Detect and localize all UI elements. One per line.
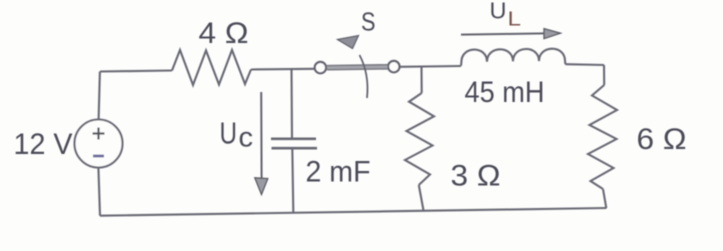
- svg-text:S: S: [361, 7, 376, 37]
- svg-text:3 Ω: 3 Ω: [451, 160, 501, 193]
- svg-text:2 mF: 2 mF: [306, 156, 371, 189]
- wire left vertical lower: [98, 168, 100, 216]
- switch S motion arc: [360, 55, 368, 98]
- wire bottom horizontal: [100, 208, 607, 216]
- wire capacitor branch upper: [290, 69, 293, 138]
- capacitor C1 top plate: [271, 138, 316, 141]
- svg-text:U: U: [220, 116, 238, 151]
- wire inductor to top-right corner: [565, 63, 604, 66]
- switch S left contact circle: [315, 62, 326, 73]
- arrow Uc line: [260, 92, 262, 179]
- arrow UL line: [461, 33, 545, 34]
- source V1 plus sign: [93, 128, 105, 140]
- wire 3ohm branch lower: [419, 185, 424, 211]
- wire right vertical upper: [603, 65, 605, 85]
- resistor R3 6ohm zigzag: [588, 85, 617, 189]
- resistor R1 4ohm zigzag: [172, 50, 251, 85]
- resistor R2 3ohm zigzag: [405, 93, 434, 185]
- wire top-left horizontal: [100, 71, 172, 72]
- svg-text:c: c: [239, 122, 254, 153]
- wire capacitor branch lower: [292, 148, 293, 212]
- wire 3ohm branch upper: [420, 68, 422, 94]
- switch S blade bar outline: [327, 64, 388, 70]
- wire left vertical upper: [99, 72, 100, 120]
- switch S motion arrowhead: [338, 36, 359, 49]
- svg-text:12 V: 12 V: [14, 128, 73, 161]
- svg-text:U: U: [490, 0, 507, 24]
- arrow Uc head: [255, 178, 268, 195]
- wire resistor to switch: [251, 68, 315, 71]
- switch S blade bar core: [327, 65, 388, 69]
- source V1 12V circle: [75, 120, 123, 168]
- source V1 minus sign: [93, 155, 104, 158]
- svg-text:4 Ω: 4 Ω: [199, 17, 249, 50]
- svg-text:45 mH: 45 mH: [465, 76, 545, 109]
- arrow UL head: [544, 29, 561, 39]
- svg-text:L: L: [508, 9, 522, 31]
- capacitor C1 bottom plate: [272, 147, 318, 150]
- switch S right contact circle: [388, 61, 399, 72]
- wire right vertical lower: [603, 189, 606, 208]
- wire switch to inductor: [400, 65, 462, 68]
- inductor L1 45mH: [461, 49, 565, 66]
- svg-text:6 Ω: 6 Ω: [637, 123, 687, 156]
